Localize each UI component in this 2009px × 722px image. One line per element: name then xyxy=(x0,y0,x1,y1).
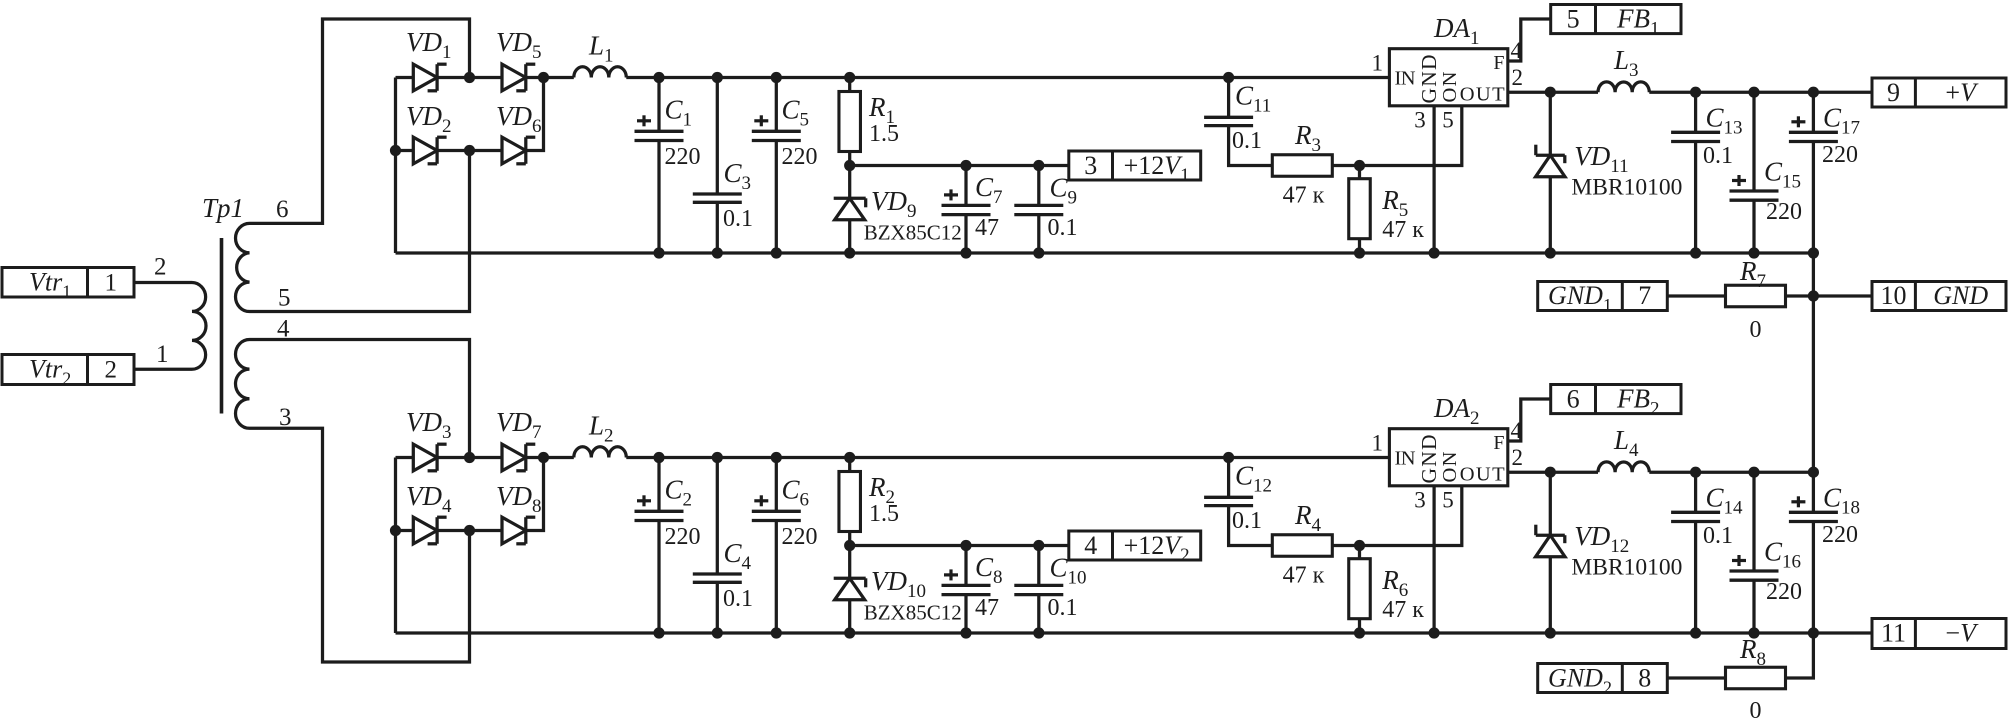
svg-text:2: 2 xyxy=(154,254,167,281)
svg-text:2: 2 xyxy=(1512,445,1524,470)
svg-text:0.1: 0.1 xyxy=(723,206,753,232)
svg-text:OUT: OUT xyxy=(1460,84,1505,106)
svg-text:1: 1 xyxy=(105,270,118,297)
junction OUT row dots xyxy=(1545,87,1556,98)
svg-text:+V: +V xyxy=(1945,78,1979,107)
svg-text:220: 220 xyxy=(782,524,818,550)
schottky diode VD12 xyxy=(1549,472,1552,535)
svg-text:GND: GND xyxy=(1417,55,1441,104)
resistor R6 xyxy=(1358,546,1361,559)
svg-text:10: 10 xyxy=(1881,281,1907,310)
transformer Tp1 primary winding xyxy=(192,283,206,370)
svg-text:GND: GND xyxy=(1417,435,1441,484)
diode VD3 xyxy=(413,444,437,471)
schottky diode VD11 xyxy=(1549,92,1552,155)
svg-text:3: 3 xyxy=(1084,151,1097,180)
wire DA2 pin3 to rail xyxy=(1432,486,1435,633)
connector Vtr1 (pin 1) xyxy=(2,268,134,298)
connector GND2 (8) xyxy=(1538,664,1668,693)
wire DA1 OUT row xyxy=(1508,91,1598,94)
svg-text:GND: GND xyxy=(1933,281,1988,310)
junction bottom rail dots (top half) xyxy=(653,247,664,258)
svg-text:3: 3 xyxy=(1414,108,1426,133)
svg-text:6: 6 xyxy=(1567,385,1580,414)
junction bridge1 nodes xyxy=(464,72,475,83)
junction bridge2 nodes xyxy=(464,452,475,463)
wire DA2 OUT row xyxy=(1508,471,1598,474)
wire R3 to DA1 pin5 xyxy=(1333,106,1462,166)
resistor R4 xyxy=(1272,535,1332,557)
wire bottom rail (top half) xyxy=(396,251,1814,254)
connector 5 FB1 xyxy=(1551,5,1681,34)
svg-text:0.1: 0.1 xyxy=(1703,143,1733,169)
svg-text:0.1: 0.1 xyxy=(1232,508,1262,534)
capacitor C16 xyxy=(1752,472,1755,571)
capacitor C12 xyxy=(1227,458,1230,498)
wire pin3 loop to bridge2 AC node xyxy=(250,428,470,662)
capacitor C7 xyxy=(964,166,967,206)
op-amp/regulator DA1 xyxy=(1389,49,1507,106)
transformer Tp1 secondary winding I (pins 6-5) xyxy=(236,223,250,311)
junction +12V1 row dots xyxy=(844,160,855,171)
svg-text:4: 4 xyxy=(1084,531,1097,560)
svg-text:OUT: OUT xyxy=(1460,464,1505,486)
wire pin4 to bridge2 AC node xyxy=(250,340,470,458)
svg-text:0.1: 0.1 xyxy=(1232,128,1262,154)
resistor R3 xyxy=(1272,155,1332,177)
capacitor C17 xyxy=(1812,92,1815,132)
svg-text:BZX85C12: BZX85C12 xyxy=(864,221,962,245)
wire bridge2 left vertical xyxy=(394,458,397,634)
svg-text:ON: ON xyxy=(1439,71,1461,102)
capacitor C18 xyxy=(1812,472,1815,512)
wire pin5 to bridge1 AC node xyxy=(250,151,470,312)
svg-text:5: 5 xyxy=(1567,5,1580,34)
svg-text:220: 220 xyxy=(665,144,701,170)
capacitor C9 xyxy=(1037,166,1040,206)
inductor L4 xyxy=(1598,462,1649,472)
svg-text:11: 11 xyxy=(1881,619,1906,648)
svg-text:1: 1 xyxy=(1372,431,1384,456)
svg-text:47 к: 47 к xyxy=(1382,597,1424,623)
connector GND1 (7) xyxy=(1538,282,1668,311)
svg-text:0.1: 0.1 xyxy=(1703,523,1733,549)
svg-text:220: 220 xyxy=(1822,142,1858,168)
svg-text:GND1: GND1 xyxy=(1548,281,1612,315)
svg-text:MBR10100: MBR10100 xyxy=(1571,555,1682,581)
svg-text:5: 5 xyxy=(1442,108,1454,133)
capacitor C2 xyxy=(657,458,660,512)
wire bridge2 row2 segments xyxy=(396,529,414,532)
wire bridge1 row2 segments xyxy=(396,149,414,152)
svg-text:47 к: 47 к xyxy=(1283,183,1325,209)
junction rail dots (bridge2) xyxy=(653,452,664,463)
capacitor C1 xyxy=(657,78,660,132)
junction OUT row dots (DA2) xyxy=(1545,467,1556,478)
svg-text:F: F xyxy=(1493,52,1504,74)
capacitor C3 xyxy=(716,78,719,195)
wire Vtr2 to primary xyxy=(134,368,192,371)
wire ground vertical link xyxy=(1812,253,1815,472)
diode VD7 xyxy=(502,444,526,471)
connector 9 +V xyxy=(1872,78,2006,107)
wire bridge2 row1 segments xyxy=(396,456,414,459)
junction bottom rail dots (lower half) xyxy=(653,627,664,638)
wire DA1 F pin to FB1 xyxy=(1508,19,1551,61)
diode VD4 xyxy=(413,517,437,544)
capacitor C15 xyxy=(1752,92,1755,191)
svg-text:3: 3 xyxy=(1414,488,1426,513)
wire +12V1 node row xyxy=(850,164,1069,167)
svg-text:ON: ON xyxy=(1439,451,1461,482)
diode VD1 xyxy=(413,64,437,91)
junction ground link at R7 xyxy=(1808,290,1819,301)
inductor L1 xyxy=(574,67,627,78)
svg-text:47: 47 xyxy=(975,595,999,621)
svg-text:F: F xyxy=(1493,432,1504,454)
svg-text:0.1: 0.1 xyxy=(723,586,753,612)
connector Vtr2 (pin 2) xyxy=(2,355,134,385)
svg-text:5: 5 xyxy=(278,285,291,312)
diode VD8 xyxy=(502,517,526,544)
svg-text:2: 2 xyxy=(1512,65,1524,90)
svg-text:8: 8 xyxy=(1638,664,1651,693)
connector 10 GND xyxy=(1872,282,2006,311)
inductor L3 xyxy=(1598,82,1649,92)
svg-text:6: 6 xyxy=(276,196,289,223)
wire +12V2 node row xyxy=(850,544,1069,547)
junction top rail dots xyxy=(653,72,664,83)
svg-text:GND2: GND2 xyxy=(1548,664,1612,698)
connector 4 +12V2 xyxy=(1069,531,1201,560)
wire DA1 pin3 to ground rail xyxy=(1432,106,1435,253)
wire DA2 F pin to FB2 xyxy=(1508,399,1551,441)
zener diode VD10 xyxy=(848,546,851,579)
capacitor C5 xyxy=(775,78,778,132)
svg-text:1.5: 1.5 xyxy=(869,121,899,147)
capacitor C4 xyxy=(716,458,719,575)
svg-text:−V: −V xyxy=(1945,619,1979,648)
svg-text:1: 1 xyxy=(1372,51,1384,76)
svg-text:IN: IN xyxy=(1395,68,1416,90)
capacitor C13 xyxy=(1694,92,1697,132)
svg-text:2: 2 xyxy=(105,357,118,384)
svg-text:IN: IN xyxy=(1395,448,1416,470)
connector 3 +12V1 xyxy=(1069,151,1201,180)
svg-text:0: 0 xyxy=(1750,698,1762,722)
wire top rail (bridge2 to DA2 IN) xyxy=(544,456,574,459)
resistor R1 xyxy=(848,78,851,92)
svg-text:9: 9 xyxy=(1887,78,1900,107)
junction +12V2 row dots xyxy=(844,540,855,551)
resistor R2 xyxy=(848,458,851,472)
junction R5 top xyxy=(1354,160,1365,171)
svg-text:220: 220 xyxy=(665,524,701,550)
diode VD5 xyxy=(502,64,526,91)
zener diode VD9 xyxy=(848,166,851,199)
svg-text:1.5: 1.5 xyxy=(869,501,899,527)
wire pin6 loop to bridge1 AC node xyxy=(250,19,470,223)
wire bridge1 left vertical xyxy=(394,78,397,254)
connector 6 FB2 xyxy=(1551,385,1681,414)
svg-text:0.1: 0.1 xyxy=(1048,215,1078,241)
svg-text:47 к: 47 к xyxy=(1283,563,1325,589)
capacitor C8 xyxy=(964,546,967,586)
svg-text:1: 1 xyxy=(156,341,169,368)
transformer Tp1 secondary winding II (pins 4-3) xyxy=(236,340,250,429)
capacitor C11 xyxy=(1227,78,1230,118)
svg-text:47 к: 47 к xyxy=(1382,217,1424,243)
op-amp/regulator DA2 xyxy=(1389,429,1507,486)
diode VD6 xyxy=(502,137,526,164)
svg-text:220: 220 xyxy=(782,144,818,170)
capacitor C6 xyxy=(775,458,778,512)
svg-text:47: 47 xyxy=(975,215,999,241)
wire bottom rail (lower half) xyxy=(396,631,1873,634)
wire top rail (bridge1 to DA1 IN) xyxy=(544,76,574,79)
capacitor C14 xyxy=(1694,472,1697,512)
wire GND2 to R8 xyxy=(1667,676,1726,679)
diode VD2 xyxy=(413,137,437,164)
junction R6 top xyxy=(1354,540,1365,551)
svg-text:0: 0 xyxy=(1750,317,1762,343)
connector 11 -V xyxy=(1872,619,2006,649)
svg-text:220: 220 xyxy=(1766,579,1802,605)
transformer Tp1 core xyxy=(220,238,224,414)
svg-text:BZX85C12: BZX85C12 xyxy=(864,601,962,625)
resistor R7 xyxy=(1726,285,1786,307)
capacitor C10 xyxy=(1037,546,1040,586)
wire R8 to -V rail xyxy=(1785,633,1813,678)
wire bridge1 row1 segments xyxy=(396,76,414,79)
resistor R8 xyxy=(1726,667,1786,689)
wire R7 to GND node xyxy=(1785,294,1872,297)
svg-text:7: 7 xyxy=(1638,281,1651,310)
resistor R5 xyxy=(1358,166,1361,179)
svg-text:MBR10100: MBR10100 xyxy=(1571,175,1682,201)
inductor L2 xyxy=(574,447,627,458)
svg-text:220: 220 xyxy=(1766,199,1802,225)
svg-text:0.1: 0.1 xyxy=(1048,595,1078,621)
svg-text:Tp1: Tp1 xyxy=(202,193,244,223)
svg-text:5: 5 xyxy=(1442,488,1454,513)
wire GND1 to R7 xyxy=(1667,294,1726,297)
wire R4 to DA2 pin5 xyxy=(1333,486,1462,546)
svg-text:220: 220 xyxy=(1822,522,1858,548)
wire Vtr1 to primary xyxy=(134,281,192,284)
